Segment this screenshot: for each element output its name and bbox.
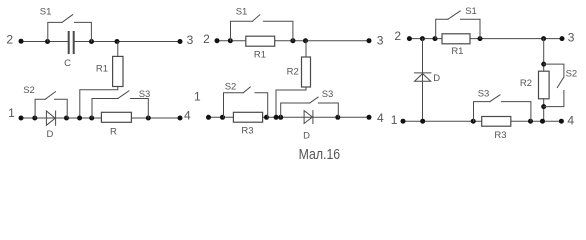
junction dot R1 top — [115, 39, 120, 44]
switch S1 — [231, 15, 293, 41]
node 4 terminal dot — [178, 116, 183, 121]
node 3 terminal dot — [560, 36, 565, 41]
R2 branch vertical wire lower — [543, 99, 545, 121]
svg-text:R3: R3 — [241, 125, 253, 136]
node 2 terminal dot — [215, 38, 220, 43]
resistor R3 (horizontal) — [233, 112, 262, 122]
svg-text:S1: S1 — [40, 7, 52, 18]
svg-text:3: 3 — [568, 31, 575, 45]
junction dot diode top — [420, 36, 425, 41]
svg-text:S2: S2 — [566, 68, 578, 79]
junction dot S3 right — [146, 116, 151, 121]
svg-text:2: 2 — [394, 29, 401, 43]
svg-text:Мал.16: Мал.16 — [299, 147, 341, 163]
svg-text:R1: R1 — [96, 64, 108, 75]
svg-text:S3: S3 — [478, 88, 490, 99]
svg-text:4: 4 — [567, 114, 574, 128]
svg-text:S1: S1 — [236, 7, 248, 18]
node 2 terminal dot — [19, 39, 24, 44]
svg-text:R2: R2 — [520, 78, 532, 89]
junction dot S2 right — [64, 116, 69, 121]
wire bottom from R3 to node 4 — [511, 120, 562, 122]
junction dot S3 right — [335, 115, 340, 120]
wire from capacitor C to node 3 — [74, 41, 180, 43]
svg-text:2: 2 — [6, 32, 13, 46]
junction dot R2 top — [303, 38, 308, 43]
svg-text:4: 4 — [377, 111, 384, 125]
resistor R (horizontal) — [101, 112, 131, 122]
wire top from node 2 to R1 — [409, 38, 442, 40]
wire top-left from node 2 to capacitor C — [21, 41, 68, 43]
resistor R2 (vertical) — [539, 71, 550, 99]
resistor R2 (vertical) — [276, 41, 311, 118]
svg-text:S1: S1 — [465, 6, 477, 17]
resistor R1 (vertical) — [80, 42, 123, 119]
svg-text:R2: R2 — [287, 66, 299, 77]
junction dot S1 left — [45, 39, 50, 44]
svg-text:3: 3 — [187, 33, 194, 47]
switch S1 — [48, 15, 92, 42]
svg-text:R3: R3 — [494, 130, 506, 141]
wire bottom-left from node 1 — [21, 117, 101, 119]
junction dot R2 bottom — [274, 115, 279, 120]
resistor R3 (horizontal) — [482, 117, 511, 127]
junction dot S2 top — [541, 62, 546, 67]
junction dot S1 right — [478, 36, 483, 41]
node 3 terminal dot — [367, 38, 372, 43]
svg-text:S2: S2 — [23, 85, 35, 96]
wire bottom from node 1 to R3 — [209, 116, 234, 118]
svg-text:C: C — [64, 58, 71, 69]
junction dot S1 right — [290, 38, 295, 43]
switch S2 — [35, 92, 67, 118]
wire top from node 2 to R1 — [217, 40, 246, 42]
capacitor C — [69, 32, 74, 53]
node 1 terminal dot — [401, 119, 406, 124]
svg-text:1: 1 — [194, 90, 201, 104]
junction dot R2 top — [541, 36, 546, 41]
svg-text:1: 1 — [391, 113, 398, 127]
wire top from R1 to node 3 — [275, 40, 369, 42]
junction dot S3 right — [528, 119, 533, 124]
resistor R1 (horizontal, top) — [246, 36, 275, 46]
wire bottom-right to node 4 — [131, 117, 180, 119]
junction dot S1 left — [228, 38, 233, 43]
switch S1 — [436, 11, 480, 39]
switch S3 — [281, 97, 339, 117]
junction dot S3 left — [471, 119, 476, 124]
diode D (vertical, pointing up) — [414, 73, 431, 81]
diode branch wire (vertical) — [422, 39, 424, 122]
junction dot R1 bottom — [77, 116, 82, 121]
junction dot S2 bottom — [541, 104, 546, 109]
svg-text:1: 1 — [8, 106, 15, 120]
junction dot S2 left — [220, 115, 225, 120]
switch S3 — [92, 91, 148, 118]
wire top from R1 to node 3 — [470, 38, 562, 40]
switch S2 (vertical) — [544, 64, 564, 107]
junction dot S3 left — [89, 116, 94, 121]
junction dot S2 left — [32, 116, 37, 121]
junction dot R2 bottom wire — [540, 119, 545, 124]
svg-text:R1: R1 — [254, 49, 266, 60]
diode D — [46, 111, 55, 125]
svg-text:R: R — [110, 126, 117, 137]
node 4 terminal dot — [559, 119, 564, 124]
R2 branch vertical wire upper — [543, 39, 545, 72]
diode D — [304, 111, 313, 124]
junction dot S1 left — [433, 36, 438, 41]
svg-text:S3: S3 — [139, 89, 151, 100]
wire bottom from node 1 to R3 — [403, 120, 482, 122]
node 1 terminal dot — [19, 116, 24, 121]
node 2 terminal dot — [407, 36, 412, 41]
svg-text:S2: S2 — [225, 82, 237, 93]
junction dot diode bottom — [420, 119, 425, 124]
junction dot S1 right — [89, 39, 94, 44]
svg-text:D: D — [46, 129, 53, 140]
svg-text:2: 2 — [203, 32, 210, 46]
svg-text:S3: S3 — [322, 89, 334, 100]
svg-text:R1: R1 — [451, 46, 463, 57]
switch S3 — [474, 95, 531, 121]
wire bottom from R3 to node 4 — [263, 116, 369, 118]
resistor R1 (horizontal, top) — [442, 34, 470, 44]
svg-text:D: D — [433, 73, 440, 84]
switch S2 — [224, 87, 268, 117]
node 4 terminal dot — [367, 115, 372, 120]
node 3 terminal dot — [178, 39, 183, 44]
node 1 terminal dot — [206, 115, 211, 120]
junction dot S3 left — [278, 115, 283, 120]
svg-text:3: 3 — [377, 34, 384, 48]
svg-text:4: 4 — [184, 109, 191, 123]
svg-text:D: D — [303, 131, 310, 142]
junction dot S2 right — [264, 115, 269, 120]
